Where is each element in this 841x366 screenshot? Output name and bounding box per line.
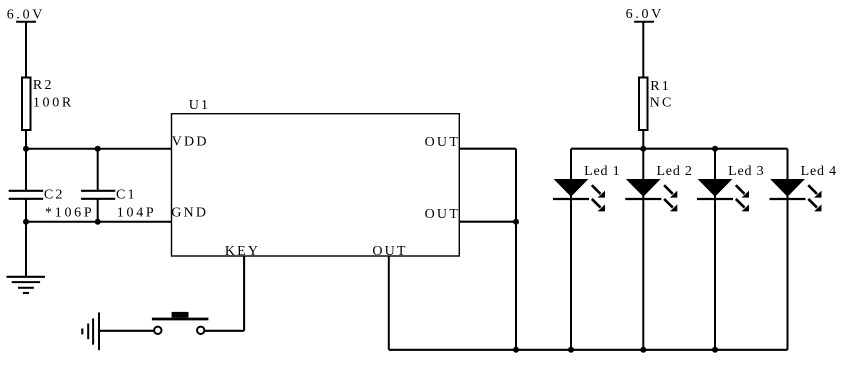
svg-text:Led 1: Led 1: [584, 164, 620, 179]
power VCC right bar symbol: [634, 21, 654, 23]
LED Led1 symbol: [553, 179, 605, 211]
pushbutton switch bar: [152, 318, 209, 321]
wire OUT mid-right stub: [459, 221, 516, 223]
junction node C1 bottom: [95, 219, 101, 225]
wire C1 bottom lead: [97, 199, 99, 222]
svg-text:*106P: *106P: [45, 206, 94, 221]
wire KEY to switch: [204, 330, 244, 332]
wire R1 bottom to anode bus: [642, 130, 644, 149]
junction node R2/C2/VDD: [23, 146, 29, 152]
resistor R2 body: [22, 78, 31, 131]
LED Led2 symbol: [625, 179, 677, 211]
svg-text:NC: NC: [650, 96, 674, 111]
wire GND net horizontal to U1: [26, 221, 172, 223]
wire VDD net horizontal to U1: [26, 148, 172, 150]
svg-text:6.0V: 6.0V: [626, 7, 664, 22]
junction node C2 bottom: [23, 219, 29, 225]
svg-text:C2: C2: [44, 187, 65, 202]
wire Led4 vertical: [787, 149, 789, 350]
capacitor C1 top plate: [81, 190, 115, 192]
wire Led3 vertical: [714, 149, 716, 350]
IC U1 body: [172, 114, 460, 256]
pushbutton switch right terminal: [197, 327, 204, 334]
junction node bus/Led3 top: [712, 146, 718, 152]
wire Led2 vertical: [642, 149, 644, 350]
svg-text:Led 3: Led 3: [728, 164, 764, 179]
power VCC left bar symbol: [16, 21, 36, 23]
capacitor C2 bottom plate: [9, 198, 44, 200]
svg-text:Led 2: Led 2: [656, 164, 692, 179]
svg-text:VDD: VDD: [172, 134, 209, 149]
junction node bus/Led3: [712, 347, 718, 353]
pushbutton switch actuator: [172, 312, 189, 318]
ground symbol at switch: [82, 313, 99, 351]
svg-text:OUT: OUT: [425, 207, 460, 222]
junction node OUT mid joins vertical: [513, 219, 519, 225]
junction node bus/Led2: [640, 347, 646, 353]
wire C1 top lead: [97, 149, 99, 191]
svg-text:Led 4: Led 4: [801, 164, 837, 179]
wire bottom bus: [389, 349, 788, 351]
wire LED anode bus: [571, 148, 788, 150]
capacitor C2 top plate: [9, 190, 44, 192]
junction node bus/Led1: [568, 347, 574, 353]
svg-text:104P: 104P: [117, 206, 157, 221]
LED Led3 symbol: [697, 179, 749, 211]
svg-text:KEY: KEY: [225, 244, 260, 259]
wire C2 bottom lead: [25, 199, 27, 222]
resistor R1 body: [639, 78, 648, 131]
svg-text:OUT: OUT: [372, 244, 407, 259]
wire OUT top-right stub: [459, 148, 516, 150]
capacitor C1 bottom plate: [81, 198, 115, 200]
ground earth symbol: [7, 277, 46, 293]
wire to earth ground: [25, 222, 27, 277]
svg-text:GND: GND: [171, 206, 208, 221]
svg-text:100R: 100R: [33, 96, 74, 111]
wire KEY pin down: [243, 256, 245, 331]
wire Led1 vertical: [570, 149, 572, 350]
svg-text:OUT: OUT: [425, 135, 460, 150]
wire switch to ground: [99, 330, 154, 332]
junction node R1/Led2: [640, 146, 646, 152]
svg-text:6.0V: 6.0V: [7, 7, 45, 22]
wire OUT right vertical: [515, 149, 517, 350]
LED Led4 symbol: [770, 179, 822, 211]
junction node C1 top: [95, 146, 101, 152]
wire VCC to R2: [25, 22, 27, 78]
svg-text:R2: R2: [33, 78, 54, 93]
svg-text:U1: U1: [189, 98, 211, 113]
pushbutton switch left terminal: [154, 327, 161, 334]
svg-text:R1: R1: [650, 79, 671, 94]
svg-text:C1: C1: [116, 187, 137, 202]
wire OUT bottom pin down: [388, 256, 390, 350]
junction node bus/OUT vertical: [513, 347, 519, 353]
wire VCC to R1: [642, 22, 644, 78]
wire R2 bottom to node VDD: [25, 130, 27, 191]
